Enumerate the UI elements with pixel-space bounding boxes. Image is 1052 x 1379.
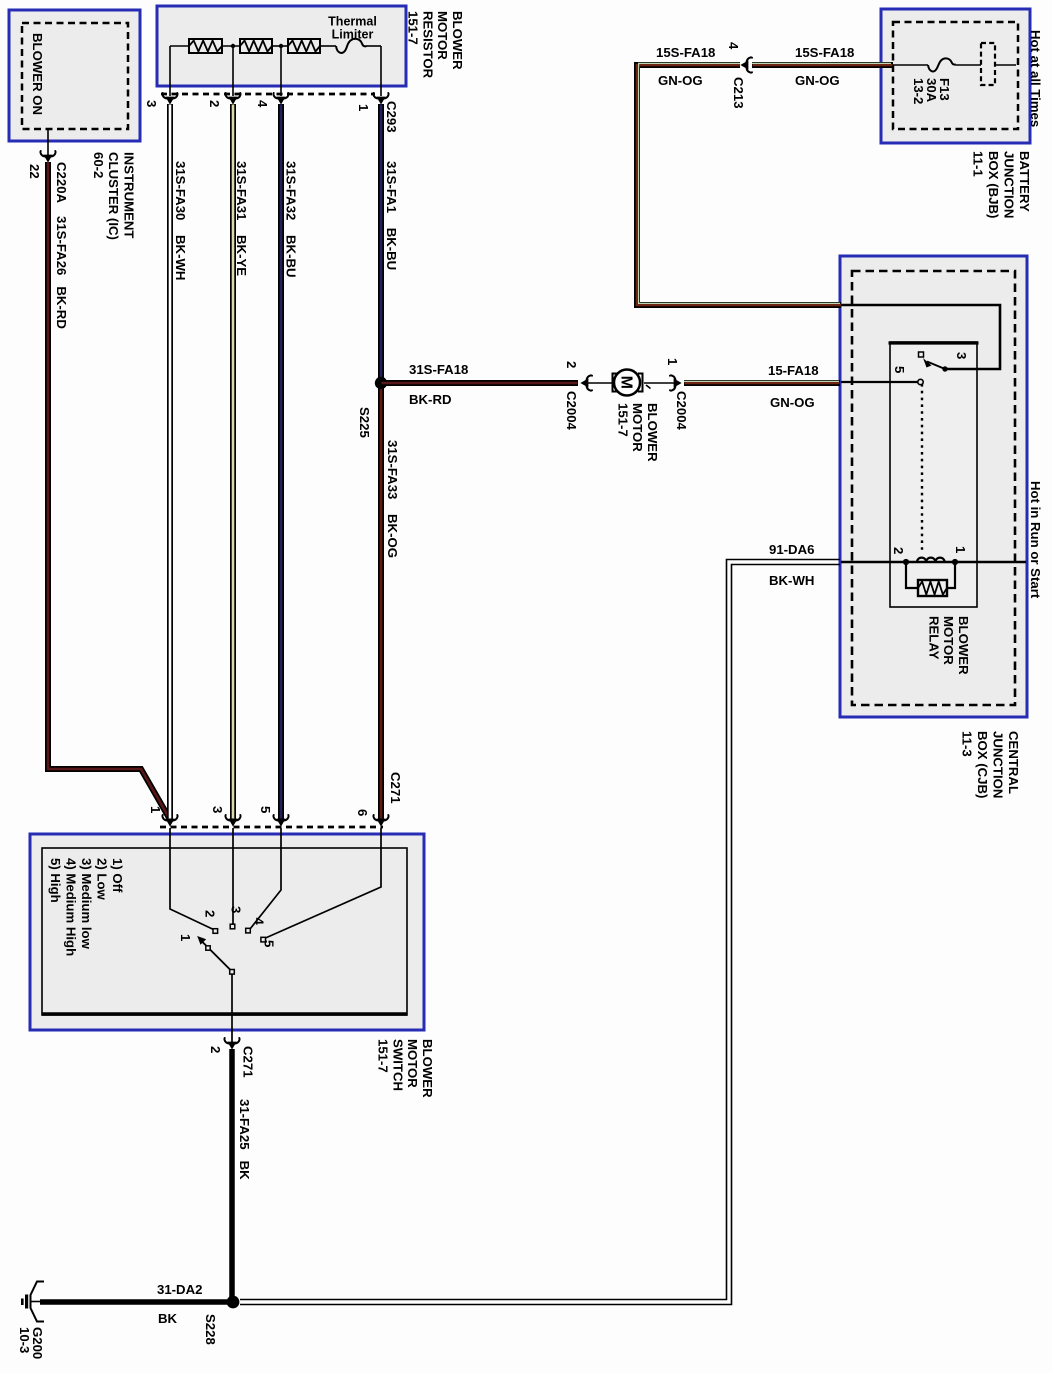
connector C293 pin2 arrow top bbox=[225, 93, 240, 104]
svg-text:C2004: C2004 bbox=[674, 391, 689, 431]
label INSTRUMENT CLUSTER (IC) 60-2 bbox=[91, 152, 137, 240]
wire R2-R3 bbox=[272, 45, 288, 47]
wire 31S-FA32 BK-BU bbox=[278, 104, 284, 819]
CJB inner dashed box bbox=[852, 271, 1015, 705]
svg-text:11-1: 11-1 bbox=[971, 151, 986, 177]
relay armature bbox=[927, 362, 945, 370]
wire 31S-FA31 BK-YE bbox=[230, 104, 236, 819]
svg-text:2) Low: 2) Low bbox=[95, 858, 110, 901]
battery junction box (BJB) bbox=[881, 9, 1030, 143]
svg-text:C271: C271 bbox=[241, 1046, 256, 1078]
central junction box (CJB) bbox=[840, 256, 1027, 717]
wire 31-FA25 BK bbox=[229, 1049, 235, 1300]
svg-text:5: 5 bbox=[262, 940, 277, 947]
wire 15S-FA18 GN-OG left segment bbox=[637, 65, 841, 305]
svg-text:BLOWER: BLOWER bbox=[645, 403, 660, 462]
svg-text:BLOWER: BLOWER bbox=[420, 1039, 435, 1098]
connector C293 pin 2 arrow bbox=[225, 815, 240, 826]
wire R3-thermal limiter bbox=[320, 45, 336, 47]
switch armature bbox=[202, 941, 231, 970]
resistor element 1 bbox=[189, 39, 222, 53]
svg-text:2: 2 bbox=[207, 100, 222, 107]
BJB internal wire right bbox=[995, 64, 1016, 66]
svg-text:3: 3 bbox=[229, 906, 244, 913]
switch contact 2 bbox=[213, 929, 218, 934]
connector C293 pin4 arrow top bbox=[273, 93, 288, 104]
connector C293 pin1 arrow top bbox=[373, 93, 388, 104]
svg-text:Thermal: Thermal bbox=[328, 15, 377, 29]
svg-text:GN-OG: GN-OG bbox=[795, 73, 840, 88]
wire 31S-FA33 BK-OG bbox=[378, 383, 384, 819]
switch inner black box bbox=[42, 848, 407, 1015]
relay coil actuation dotted line bbox=[921, 384, 923, 552]
svg-text:151-7: 151-7 bbox=[615, 403, 630, 437]
svg-text:GN-OG: GN-OG bbox=[658, 73, 703, 88]
switch wire from pin3 bbox=[232, 828, 234, 924]
label BLOWER MOTOR RELAY bbox=[926, 616, 971, 675]
connector C271 pin 2 arrow bottom bbox=[224, 1038, 239, 1049]
fuse cartridge dashed rect bbox=[981, 43, 995, 85]
svg-text:5: 5 bbox=[892, 366, 907, 373]
connector C220A pin 22 arrow bbox=[40, 151, 55, 162]
svg-text:31S-FA26 BK-RD: 31S-FA26 BK-RD bbox=[54, 216, 69, 329]
wire 15-FA18 green stripe bbox=[684, 380, 839, 382]
svg-text:151-7: 151-7 bbox=[376, 1039, 391, 1073]
svg-text:31-FA25 BK: 31-FA25 BK bbox=[237, 1099, 252, 1180]
connector C293 pin 1 arrow bbox=[373, 815, 388, 826]
switch position legend bbox=[48, 858, 125, 956]
svg-text:BLOWER ON: BLOWER ON bbox=[30, 33, 45, 115]
svg-text:3: 3 bbox=[954, 352, 969, 359]
svg-text:1: 1 bbox=[953, 546, 968, 553]
svg-text:JUNCTION: JUNCTION bbox=[991, 731, 1006, 798]
svg-text:31-DA2: 31-DA2 bbox=[157, 1282, 202, 1297]
svg-text:1: 1 bbox=[178, 934, 193, 941]
svg-text:1) Off: 1) Off bbox=[110, 858, 125, 893]
junction node pin2 tap bbox=[231, 44, 235, 48]
svg-text:BLOWER: BLOWER bbox=[956, 616, 971, 675]
svg-text:4: 4 bbox=[255, 100, 270, 108]
svg-text:GN-OG: GN-OG bbox=[770, 395, 815, 410]
svg-text:SWITCH: SWITCH bbox=[390, 1039, 405, 1091]
svg-text:S225: S225 bbox=[357, 407, 372, 438]
relay coil pin 2 node bbox=[903, 559, 909, 565]
relay coil wire through pins 2 and 1 bbox=[841, 561, 1026, 564]
svg-text:31S-FA1 BK-BU: 31S-FA1 BK-BU bbox=[384, 161, 399, 270]
svg-text:22: 22 bbox=[27, 164, 42, 179]
switch contact 4 bbox=[246, 928, 251, 933]
svg-text:1: 1 bbox=[356, 104, 371, 111]
relay pin 5 contact circle bbox=[918, 379, 923, 384]
svg-text:RESISTOR: RESISTOR bbox=[420, 11, 435, 79]
resistor box internal drop pin3 bbox=[169, 46, 171, 96]
relay feed wire from pin3 terminal bbox=[841, 305, 1000, 369]
svg-text:15S-FA18: 15S-FA18 bbox=[656, 45, 715, 60]
svg-text:2: 2 bbox=[564, 361, 579, 368]
svg-text:15S-FA18: 15S-FA18 bbox=[795, 45, 854, 60]
wire 15S-FA18 right green stripe bbox=[752, 62, 891, 64]
switch armature pivot contact bbox=[230, 970, 235, 975]
wire 31S-FA18 BK-RD bbox=[381, 380, 578, 386]
svg-text:3: 3 bbox=[210, 806, 225, 813]
blower motor relay box bbox=[890, 342, 977, 607]
svg-text:BLOWER: BLOWER bbox=[450, 11, 465, 70]
wire 31S-FA26 BK-RD bbox=[48, 162, 170, 820]
resistor box internal drop pin2 bbox=[232, 48, 234, 96]
svg-text:60-2: 60-2 bbox=[91, 152, 106, 178]
blower motor resistor box bbox=[157, 6, 406, 86]
thermal limiter element bbox=[336, 39, 367, 53]
relay suppression resistor branch left bbox=[906, 562, 918, 588]
junction node pin4 tap bbox=[279, 44, 283, 48]
svg-text:3) Medium low: 3) Medium low bbox=[79, 858, 94, 950]
connector C293 pin 4 arrow bbox=[273, 815, 288, 826]
svg-text:31S-FA31 BK-YE: 31S-FA31 BK-YE bbox=[234, 161, 249, 276]
connector C293 pin3 arrow top bbox=[162, 93, 177, 104]
switch armature arrowhead bbox=[197, 936, 206, 945]
relay coil pin 1 node bbox=[952, 559, 958, 565]
svg-text:MOTOR: MOTOR bbox=[405, 1039, 420, 1088]
svg-text:1: 1 bbox=[665, 358, 680, 365]
svg-text:INSTRUMENT: INSTRUMENT bbox=[122, 152, 137, 238]
label BLOWER MOTOR RESISTOR 151-7 bbox=[406, 11, 465, 79]
BJB internal wire mid bbox=[956, 64, 981, 66]
relay suppression resistor bbox=[918, 580, 947, 596]
svg-text:31S-FA33 BK-OG: 31S-FA33 BK-OG bbox=[385, 440, 400, 558]
resistor box internal drop pin4 bbox=[280, 48, 282, 96]
wire 91-DA6 BK-WH double line inner bbox=[240, 565, 840, 1305]
resistor box internal drop pin1 bbox=[380, 46, 382, 96]
svg-text:91-DA6: 91-DA6 bbox=[769, 542, 814, 557]
svg-text:31S-FA32 BK-BU: 31S-FA32 BK-BU bbox=[284, 161, 299, 278]
wire 31S-FA30 BK-WH bbox=[167, 104, 173, 819]
fuse F13 element bbox=[928, 58, 956, 71]
connector C2004 pin 1 arrow bbox=[670, 375, 681, 390]
wire thermal limiter-right end bbox=[366, 45, 381, 47]
resistor chain wire left segment bbox=[170, 45, 189, 47]
instrument cluster (IC) box bbox=[9, 10, 140, 141]
relay coil winding bbox=[917, 558, 945, 562]
svg-text:11-3: 11-3 bbox=[960, 731, 975, 757]
relay armature arrowhead bbox=[923, 358, 932, 368]
svg-text:Hot in Run or Start: Hot in Run or Start bbox=[1028, 481, 1043, 599]
switch wire from pin1 bbox=[170, 828, 214, 930]
IC pigtail line bbox=[47, 129, 49, 157]
svg-text:5) High: 5) High bbox=[48, 858, 63, 903]
svg-text:C293: C293 bbox=[384, 101, 399, 133]
wire 31S-FA1 BK-BU bbox=[378, 104, 384, 383]
wire R1-R2 bbox=[222, 45, 240, 47]
svg-text:4: 4 bbox=[252, 918, 267, 926]
connector C213 pin 4 arrow bbox=[741, 57, 752, 72]
IC inner dashed box bbox=[22, 23, 128, 129]
svg-text:CENTRAL: CENTRAL bbox=[1006, 731, 1021, 794]
label CENTRAL JUNCTION BOX (CJB) 11-3 bbox=[960, 731, 1022, 798]
BJB internal wire left bbox=[884, 64, 928, 66]
relay suppression resistor branch right bbox=[947, 562, 955, 588]
ground G200 symbol bbox=[21, 1282, 44, 1322]
svg-text:151-7: 151-7 bbox=[406, 11, 421, 45]
splice S228 bbox=[227, 1296, 240, 1309]
ground G200 10-3 label bbox=[17, 1327, 45, 1359]
wire 15S-FA18 GN-OG right segment bbox=[752, 62, 893, 68]
svg-text:31S-FA18: 31S-FA18 bbox=[409, 362, 468, 377]
switch contact 3 bbox=[230, 924, 235, 929]
relay armature fixed contact square bbox=[919, 352, 924, 357]
svg-text:BK: BK bbox=[158, 1311, 178, 1326]
svg-text:BOX (CJB): BOX (CJB) bbox=[975, 731, 990, 798]
svg-text:4) Medium High: 4) Medium High bbox=[64, 858, 79, 956]
label F13 30A 13-2 bbox=[911, 78, 952, 104]
wire 15-FA18 GN-OG bbox=[684, 380, 840, 386]
switch armature moving contact square bbox=[206, 946, 210, 950]
relay pin5 wire bbox=[841, 381, 918, 383]
relay contact pin3 node bbox=[942, 366, 947, 371]
svg-text:Limiter: Limiter bbox=[332, 28, 374, 42]
connector C2004 pin 2 arrow bbox=[581, 375, 592, 390]
connector C293 pin 3 arrow bbox=[162, 815, 177, 826]
svg-text:M: M bbox=[617, 376, 634, 389]
BJB inner dashed box bbox=[893, 22, 1018, 129]
connector C271 dashed line bbox=[160, 826, 383, 829]
label BLOWER MOTOR 151-7 bbox=[615, 403, 660, 462]
resistor element 3 bbox=[288, 39, 320, 53]
svg-text:2: 2 bbox=[891, 547, 906, 554]
svg-text:13-2: 13-2 bbox=[911, 78, 926, 104]
svg-text:BK-RD: BK-RD bbox=[409, 392, 452, 407]
blower motor symbol bbox=[613, 370, 651, 396]
switch contact 5 bbox=[261, 937, 266, 942]
svg-text:MOTOR: MOTOR bbox=[941, 616, 956, 665]
svg-text:BOX (BJB): BOX (BJB) bbox=[986, 151, 1001, 218]
wire 91-DA6 BK-WH double line outer bbox=[240, 560, 840, 1300]
relay box thick top edge bbox=[889, 341, 979, 344]
svg-text:4: 4 bbox=[726, 42, 741, 50]
svg-text:Hot at all Times: Hot at all Times bbox=[1028, 30, 1043, 127]
svg-text:BK-WH: BK-WH bbox=[769, 573, 814, 588]
resistor element 2 bbox=[240, 39, 272, 53]
wire 31-DA2 BK bbox=[40, 1299, 236, 1305]
svg-text:MOTOR: MOTOR bbox=[630, 403, 645, 452]
switch inner box thick bottom edge bbox=[42, 1012, 407, 1015]
svg-text:10-3: 10-3 bbox=[17, 1327, 32, 1353]
switch output wire to pin2 bbox=[231, 974, 233, 1044]
svg-text:C220A: C220A bbox=[54, 162, 69, 204]
svg-text:JUNCTION: JUNCTION bbox=[1002, 151, 1017, 218]
connector C293 dashed line bbox=[161, 93, 375, 96]
svg-text:MOTOR: MOTOR bbox=[435, 11, 450, 60]
motor feed line left bbox=[588, 382, 612, 384]
splice S225 bbox=[375, 377, 387, 389]
svg-text:1: 1 bbox=[148, 806, 163, 813]
svg-text:CLUSTER (IC): CLUSTER (IC) bbox=[106, 152, 121, 240]
wire 15S-FA18 left green stripe bbox=[639, 63, 840, 303]
svg-text:BATTERY: BATTERY bbox=[1017, 151, 1032, 212]
svg-text:5: 5 bbox=[258, 806, 273, 813]
svg-text:2: 2 bbox=[208, 1046, 223, 1053]
svg-text:31S-FA30 BK-WH: 31S-FA30 BK-WH bbox=[173, 161, 188, 280]
switch wire from pin5 bbox=[250, 828, 281, 929]
motor feed line right bbox=[644, 382, 674, 384]
svg-text:S228: S228 bbox=[203, 1314, 218, 1345]
label BLOWER MOTOR SWITCH 151-7 bbox=[376, 1039, 435, 1098]
switch wire from pin6 bbox=[266, 828, 382, 938]
svg-text:15-FA18: 15-FA18 bbox=[768, 363, 819, 378]
blower motor switch box bbox=[30, 834, 424, 1030]
svg-text:6: 6 bbox=[355, 809, 370, 816]
svg-text:RELAY: RELAY bbox=[926, 616, 941, 660]
svg-text:2: 2 bbox=[203, 910, 218, 917]
svg-text:C2004: C2004 bbox=[564, 391, 579, 431]
svg-text:C271: C271 bbox=[388, 772, 403, 804]
svg-text:C213: C213 bbox=[731, 77, 746, 109]
svg-text:3: 3 bbox=[144, 100, 159, 107]
label BATTERY JUNCTION BOX (BJB) 11-1 bbox=[971, 151, 1033, 218]
